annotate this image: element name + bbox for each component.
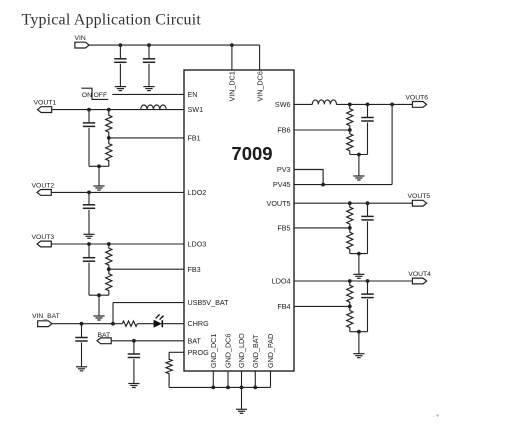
svg-text:GND_PAD: GND_PAD bbox=[266, 334, 275, 368]
svg-text:PROG: PROG bbox=[188, 348, 210, 357]
capacitor C4 bbox=[75, 337, 87, 339]
resistor R3b bbox=[106, 269, 112, 295]
resistor R6b bbox=[347, 130, 353, 155]
svg-text:CHRG: CHRG bbox=[188, 319, 210, 328]
junction VIN/VIN_DC1 bbox=[230, 43, 234, 47]
wire R-LED bbox=[137, 323, 154, 325]
capacitor C4r lead2 bbox=[367, 299, 369, 332]
ground VOUT3 bbox=[93, 315, 104, 317]
connector VOUT3 bbox=[37, 241, 51, 247]
resistor R_PROG bbox=[166, 352, 172, 387]
node ON/OFF symbol bbox=[81, 88, 108, 99]
capacitor C5r bbox=[361, 215, 373, 217]
resistor R5b bbox=[347, 228, 353, 254]
capacitor C1 lead2 bbox=[88, 128, 90, 166]
junction VOUT1/R1 bbox=[107, 108, 111, 112]
wire SW6 bbox=[294, 103, 313, 105]
wire GND_DC6 stub bbox=[227, 371, 229, 387]
svg-text:USB5V_BAT: USB5V_BAT bbox=[188, 298, 230, 307]
wire USB5V_BAT horizontal bbox=[113, 302, 184, 304]
wire FB3 bbox=[109, 268, 184, 270]
wire VIN_DC1 stub bbox=[231, 45, 233, 70]
svg-text:OFF: OFF bbox=[94, 92, 108, 99]
wire PROG to gnd bus bbox=[169, 386, 270, 388]
wire VIN_DC6 corner bbox=[259, 45, 261, 70]
wire ch4 gnd stem bbox=[358, 332, 360, 354]
junction FB3 bbox=[107, 267, 111, 271]
wire FB6 bbox=[294, 129, 350, 131]
capacitor C4 lead bbox=[81, 324, 83, 337]
wire VOUT3 gnd stem bbox=[98, 295, 100, 316]
ground ch4 bbox=[353, 353, 364, 355]
svg-text:PV3: PV3 bbox=[277, 165, 291, 174]
svg-text:VIN_BAT: VIN_BAT bbox=[32, 313, 60, 320]
wire gnd stem center bbox=[241, 387, 243, 409]
svg-text:BAT: BAT bbox=[188, 336, 202, 345]
inductor L6 bbox=[312, 100, 336, 105]
wire ch6 divider bottom bbox=[350, 154, 368, 156]
capacitor C1 lead bbox=[88, 110, 90, 123]
ground VOUT1 bbox=[93, 185, 104, 187]
connector BAT bbox=[97, 338, 111, 344]
junction VOUT2/C2 bbox=[87, 191, 91, 195]
junction VIN/CIN2 bbox=[147, 43, 151, 47]
junction VOUT5/C5r bbox=[366, 201, 370, 205]
capacitor C2 lead bbox=[88, 192, 90, 204]
junction ch6 gnd bbox=[357, 153, 361, 157]
wire VOUT5 bbox=[294, 202, 413, 204]
svg-text:LDO4: LDO4 bbox=[272, 277, 291, 286]
ground ch6 bbox=[353, 175, 364, 177]
svg-text:EN: EN bbox=[188, 90, 198, 99]
resistor R_LED bbox=[122, 321, 137, 326]
ground CIN1 bbox=[115, 86, 126, 88]
capacitor C1 bbox=[83, 122, 95, 124]
resistor R1b bbox=[106, 138, 112, 166]
wire VOUT4 bbox=[294, 280, 413, 282]
svg-text:Typical Application Circuit: Typical Application Circuit bbox=[22, 12, 202, 29]
wire USB5V_BAT vertical bbox=[112, 303, 114, 324]
junction gnd bus GND_LDO bbox=[240, 386, 244, 390]
svg-text:LDO2: LDO2 bbox=[188, 188, 207, 197]
junction gnd bus GND_DC6 bbox=[226, 386, 230, 390]
capacitor C3 lead2 bbox=[88, 263, 90, 296]
connector VOUT5 bbox=[412, 200, 426, 206]
wire GND_DC1 stub bbox=[212, 371, 214, 387]
junction VOUT3/R3 bbox=[107, 242, 111, 246]
connector VOUT6 bbox=[412, 102, 426, 108]
capacitor CIN2 bbox=[143, 58, 155, 60]
junction PV3/PV45 bbox=[321, 183, 325, 187]
resistor R1a bbox=[106, 110, 112, 138]
junction VIN_BAT/USB5V bbox=[111, 322, 115, 326]
svg-text:VOUT5: VOUT5 bbox=[408, 193, 431, 200]
wire PV45 to VOUT6 bbox=[391, 104, 393, 184]
wire ch5 gnd stem bbox=[358, 254, 360, 275]
wire VIN_BAT bbox=[52, 323, 122, 325]
capacitor C2 lead2 bbox=[88, 210, 90, 235]
ground C5 bbox=[128, 383, 139, 385]
inductor L1 bbox=[141, 105, 167, 110]
svg-text:FB5: FB5 bbox=[277, 224, 290, 233]
junction SW6/R6 bbox=[348, 103, 352, 107]
LED D1 bbox=[154, 320, 161, 327]
wire ch6 gnd stem bbox=[358, 155, 360, 177]
junction FB4 bbox=[348, 305, 352, 309]
wire ch5 divider bottom bbox=[350, 253, 368, 255]
connector VOUT2 bbox=[37, 190, 51, 196]
capacitor C4 lead2 bbox=[81, 343, 83, 367]
junction FB6 bbox=[348, 128, 352, 132]
capacitor C5 bbox=[128, 353, 140, 355]
svg-text:GND_DC6: GND_DC6 bbox=[224, 334, 233, 368]
junction VOUT3/C3 bbox=[87, 242, 91, 246]
ground main bbox=[236, 408, 247, 410]
wire GND_PAD stub bbox=[270, 371, 272, 387]
wire PV45 bbox=[294, 184, 392, 186]
capacitor C4r bbox=[361, 293, 373, 295]
capacitor C3 bbox=[83, 257, 95, 259]
svg-text:FB4: FB4 bbox=[277, 302, 290, 311]
junction ch5 gnd bbox=[357, 252, 361, 256]
junction VIN_BAT/C4 bbox=[80, 322, 84, 326]
ground C2 bbox=[83, 233, 94, 235]
wire VOUT1 divider bottom bbox=[89, 165, 109, 167]
ground CIN2 bbox=[143, 86, 154, 88]
capacitor CIN1 bbox=[114, 58, 126, 60]
svg-text:VOUT2: VOUT2 bbox=[32, 182, 55, 189]
capacitor CIN1 lead2 bbox=[119, 64, 121, 87]
LED D1 arrows bbox=[156, 315, 159, 318]
wire SW6-VOUT6 bbox=[336, 103, 413, 105]
wire FB4 bbox=[294, 305, 350, 307]
junction VOUT1 gnd bbox=[97, 164, 101, 168]
capacitor C5 lead bbox=[133, 341, 135, 354]
junction VOUT3 gnd bbox=[97, 293, 101, 297]
wire VOUT1 gnd stem bbox=[98, 166, 100, 186]
svg-text:VIN: VIN bbox=[75, 35, 86, 42]
svg-text:7009: 7009 bbox=[231, 143, 272, 164]
capacitor C6 lead2 bbox=[367, 123, 369, 155]
resistor R6a bbox=[347, 104, 353, 130]
svg-text:ON: ON bbox=[82, 92, 92, 99]
svg-text:FB1: FB1 bbox=[188, 134, 201, 143]
junction VOUT4/C4r bbox=[366, 279, 370, 283]
svg-text:LDO3: LDO3 bbox=[188, 240, 207, 249]
wire VOUT3 bbox=[52, 243, 184, 245]
capacitor CIN1 lead bbox=[119, 45, 121, 58]
resistor R4a bbox=[347, 281, 353, 306]
svg-text:SW6: SW6 bbox=[275, 100, 291, 109]
junction FB5 bbox=[348, 226, 352, 230]
junction VOUT1/C1 bbox=[87, 108, 91, 112]
wire GND_LDO stub bbox=[241, 371, 243, 387]
wire VOUT2 bbox=[52, 191, 184, 193]
junction gnd bus GND_BAT bbox=[253, 386, 257, 390]
svg-text:VOUT3: VOUT3 bbox=[32, 234, 55, 241]
node artifact mark bbox=[436, 414, 438, 416]
svg-text:FB6: FB6 bbox=[277, 126, 290, 135]
svg-text:GND_DC1: GND_DC1 bbox=[209, 334, 218, 368]
capacitor C2 bbox=[83, 204, 95, 206]
IC U1 body 7009 bbox=[184, 70, 294, 371]
wire LED-CHRG bbox=[163, 323, 184, 325]
capacitor C6 bbox=[361, 117, 373, 119]
capacitor C5r lead bbox=[367, 203, 369, 216]
svg-text:VIN_DC1: VIN_DC1 bbox=[228, 71, 237, 101]
wire GND_BAT stub bbox=[254, 371, 256, 387]
svg-text:GND_BAT: GND_BAT bbox=[251, 334, 260, 368]
svg-text:SW1: SW1 bbox=[188, 105, 204, 114]
wire ch4 divider bottom bbox=[350, 331, 368, 333]
junction SW6/PV bbox=[390, 103, 394, 107]
junction gnd bus GND_DC1 bbox=[211, 386, 215, 390]
capacitor C5r lead2 bbox=[367, 221, 369, 253]
wire VOUT1 bbox=[52, 109, 184, 111]
svg-text:VOUT4: VOUT4 bbox=[408, 271, 431, 278]
wire PROG bbox=[169, 351, 184, 353]
junction BAT/C5 bbox=[132, 339, 136, 343]
svg-text:GND_LDO: GND_LDO bbox=[237, 333, 246, 368]
capacitor C3 lead bbox=[88, 244, 90, 257]
capacitor C5 lead2 bbox=[133, 359, 135, 384]
ground C4 bbox=[76, 366, 87, 368]
capacitor CIN2 lead bbox=[148, 45, 150, 58]
connector VOUT4 bbox=[412, 278, 426, 284]
wire FB1 bbox=[109, 137, 184, 139]
resistor R5a bbox=[347, 203, 353, 228]
resistor R3a bbox=[106, 244, 112, 269]
ground ch5 bbox=[353, 273, 364, 275]
wire VIN horizontal bbox=[89, 44, 260, 46]
connector VIN_BAT bbox=[38, 321, 52, 327]
capacitor C6 lead bbox=[367, 104, 369, 117]
svg-text:VOUT6: VOUT6 bbox=[405, 94, 428, 101]
svg-text:FB3: FB3 bbox=[188, 265, 201, 274]
junction VOUT4/R4 bbox=[348, 279, 352, 283]
connector VIN bbox=[75, 42, 89, 48]
junction VOUT5/R5 bbox=[348, 201, 352, 205]
svg-text:VOUT5: VOUT5 bbox=[267, 199, 291, 208]
junction VIN/CIN1 bbox=[119, 43, 123, 47]
wire BAT bbox=[112, 340, 184, 342]
capacitor C4r lead bbox=[367, 281, 369, 294]
svg-text:VOUT1: VOUT1 bbox=[34, 100, 57, 107]
junction SW6/C6 bbox=[366, 103, 370, 107]
wire FB5 bbox=[294, 227, 350, 229]
wire VOUT3 divider bottom bbox=[89, 294, 109, 296]
junction ch4 gnd bbox=[357, 330, 361, 334]
junction FB1 bbox=[107, 136, 111, 140]
svg-text:PV45: PV45 bbox=[273, 180, 291, 189]
svg-text:VIN_DC6: VIN_DC6 bbox=[255, 71, 264, 101]
capacitor CIN2 lead2 bbox=[148, 64, 150, 87]
resistor R4b bbox=[347, 306, 353, 331]
connector VOUT1 bbox=[38, 107, 52, 113]
wire EN bbox=[112, 93, 184, 95]
wire PV3 bbox=[294, 170, 323, 185]
